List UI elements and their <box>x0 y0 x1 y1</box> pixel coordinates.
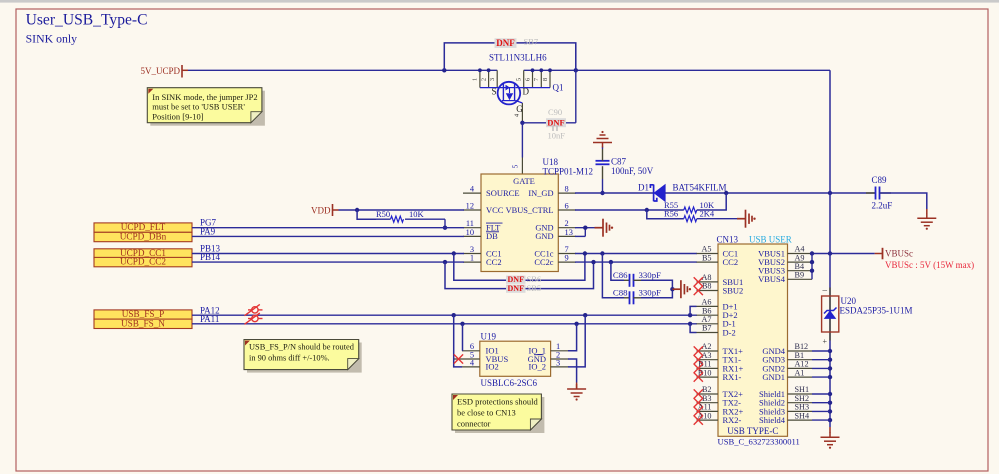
CN13 pin B2 lead <box>697 393 719 395</box>
svg-text:+: + <box>823 337 828 346</box>
junction PA12 / CN13 D+ <box>688 313 692 317</box>
junction C86/C88 ground <box>670 287 674 291</box>
CN13 pin SH3 lead <box>788 410 813 412</box>
Q1 source pin 2 lead <box>488 70 490 87</box>
CN13 pin B4 lead <box>788 270 813 272</box>
wire C87 stem lower <box>602 179 604 193</box>
svg-text:CC2c: CC2c <box>534 258 553 267</box>
wire USB_FS_N PA11 <box>192 323 697 325</box>
svg-text:A1: A1 <box>795 368 805 377</box>
svg-text:must be set to 'USB USER': must be set to 'USB USER' <box>152 102 245 112</box>
svg-text:GND: GND <box>535 232 553 241</box>
svg-text:ESD protections should: ESD protections should <box>457 397 538 407</box>
wire C88 right to join <box>641 289 672 298</box>
CN13 pin A9 lead <box>788 261 813 263</box>
port UCPD_DBn <box>94 232 192 241</box>
junction VBUS vertical / D1 net <box>828 191 832 195</box>
svg-text:C88: C88 <box>613 288 628 298</box>
CN13 pin B12 lead <box>788 350 813 352</box>
junction D1 / R55 <box>724 191 728 195</box>
svg-text:DNF: DNF <box>547 117 564 127</box>
resistor R55 <box>684 207 697 213</box>
svg-text:BAT54KFILM: BAT54KFILM <box>673 182 727 192</box>
junction GND2 on vertical <box>828 366 832 370</box>
junction VBUS_CTRL / R56 branch <box>645 208 649 212</box>
svg-text:PB14: PB14 <box>200 252 221 262</box>
power stub 5V_UCPD <box>183 69 189 71</box>
DNF marker on SB7 <box>495 38 517 48</box>
svg-text:RX1-: RX1- <box>723 372 742 382</box>
no-connect X on CN13 A11 <box>694 407 703 416</box>
U18 pin 10 lead <box>463 235 481 237</box>
svg-text:CC2: CC2 <box>723 257 739 267</box>
C86 right lead (dark) <box>634 279 642 281</box>
junction CC1 / SB6 drop <box>452 251 456 255</box>
junction Q1 pin2 on rail <box>487 68 491 72</box>
wire U19 GND down <box>568 359 577 383</box>
U19 ground stem <box>576 383 578 389</box>
svg-text:B12: B12 <box>795 342 809 351</box>
U18 pin 4 lead <box>463 192 481 194</box>
svg-text:C86: C86 <box>613 270 628 280</box>
junction PA12 / U19 IO_2 <box>583 313 587 317</box>
wire C89 to ground <box>880 193 927 209</box>
junction PA11 / U19 IO_1 <box>574 322 578 326</box>
svg-text:IO_2: IO_2 <box>529 362 546 372</box>
Q1 drain pin 6 lead <box>532 70 534 87</box>
svg-text:3: 3 <box>489 78 496 81</box>
wire C86 right to join <box>641 280 672 289</box>
note sticky ESD protections <box>455 397 544 433</box>
svg-text:GATE: GATE <box>513 176 535 186</box>
svg-text:VBUS4: VBUS4 <box>758 274 786 284</box>
capacitor C88 <box>630 291 634 304</box>
junction CC2 / SB5 drop <box>443 260 447 264</box>
junction CC1c / C88 drop <box>600 251 604 255</box>
CN13 pin B9 lead <box>788 278 813 280</box>
svg-text:1: 1 <box>472 78 479 81</box>
U19 pin 5 lead <box>453 358 480 360</box>
wire SB7 bypass loop <box>444 43 576 70</box>
svg-text:VCC: VCC <box>486 205 504 215</box>
no-connect X on CN13 B10 <box>694 373 703 382</box>
wire PB14 to U18 CC2 <box>192 261 464 263</box>
U20 pin leads (dark) through body <box>829 288 831 341</box>
Q1 drain pin 7 lead <box>540 70 542 87</box>
port UCPD_CC2 <box>94 257 192 266</box>
CN13 pin A8 lead <box>697 281 719 283</box>
junction VBUS1 / vbus join <box>810 251 814 255</box>
junction Q1 pin6 on rail <box>531 68 535 72</box>
port USB_FS_P <box>94 310 192 319</box>
capacitor C90 grey plates <box>553 126 557 132</box>
wire SB6 bypass <box>454 254 585 281</box>
junction VBUS2 <box>810 260 814 264</box>
CN13 pin A5 lead <box>697 253 719 255</box>
Q1 source pin 3 lead <box>496 70 498 87</box>
no-connect X on CN13 A2 <box>694 346 703 355</box>
svg-text:UCPD_CC2: UCPD_CC2 <box>120 257 166 267</box>
wire into R50 <box>376 218 391 220</box>
U18 pin 1 lead <box>463 261 481 263</box>
U18 pin 12 lead <box>463 209 481 211</box>
junction Q1 pin1 on rail <box>478 68 482 72</box>
ground below CN13 VBUS vertical <box>821 432 840 445</box>
svg-text:S: S <box>492 87 497 97</box>
svg-text:B9: B9 <box>795 271 805 280</box>
Q1 drain pin 8 lead <box>549 70 551 87</box>
junction PA11 / CN13 D- <box>688 322 692 326</box>
DNF marker on SB6 <box>506 276 526 284</box>
svg-text:USB_C_632723300011: USB_C_632723300011 <box>718 437 800 447</box>
svg-text:A7: A7 <box>701 315 711 324</box>
svg-text:R56: R56 <box>664 209 678 219</box>
power stub VBUSc <box>875 253 882 255</box>
svg-text:330pF: 330pF <box>639 288 662 298</box>
wire U18 GND pins join <box>584 228 586 237</box>
CN13 pin A4 lead <box>788 253 813 255</box>
svg-text:5: 5 <box>511 164 519 168</box>
wire SB5 bypass <box>445 262 594 289</box>
wire U18 pin13 to join <box>575 235 585 237</box>
ground right of U18 GND <box>595 219 610 237</box>
transil U20 body <box>822 296 839 332</box>
resistor R50 <box>391 216 404 222</box>
CN13 pin A12 lead <box>788 367 813 369</box>
svg-text:U19: U19 <box>481 332 497 342</box>
wire U18 IN_GD to D1 <box>575 192 653 194</box>
wire VDD to U18 VCC <box>339 209 465 211</box>
wire D+1 jog <box>690 306 696 315</box>
wire U18 pin2 to ground <box>575 227 595 229</box>
svg-text:Position [9-10]: Position [9-10] <box>152 112 203 122</box>
junction R50 / FLT net <box>443 226 447 230</box>
power port VBUSc <box>882 248 884 259</box>
differential pair marker on PA12 <box>245 304 263 315</box>
junction 5V rail / SB7-C90 right <box>574 68 578 72</box>
junction VBUS1 / main vertical <box>828 251 832 255</box>
junction VBUS3 <box>810 269 814 273</box>
C88 left lead (dark) <box>624 297 630 299</box>
svg-text:1: 1 <box>470 254 474 263</box>
port UCPD_FLT <box>94 223 192 232</box>
svg-text:ESDA25P35-1U1M: ESDA25P35-1U1M <box>840 306 913 316</box>
svg-text:SB7: SB7 <box>524 37 539 47</box>
junction PA11 / U19 IO1 <box>460 322 464 326</box>
svg-text:100nF, 50V: 100nF, 50V <box>611 166 654 176</box>
no-connect X on CN13 B2 <box>694 389 703 398</box>
wire D-2 jog <box>690 324 696 333</box>
wire B1 to vertical <box>812 359 830 361</box>
CN13 pin A2 lead <box>697 350 719 352</box>
wire R55 up to D1 net <box>697 193 726 210</box>
svg-text:2K4: 2K4 <box>700 209 715 219</box>
svg-text:USBLC6-2SC6: USBLC6-2SC6 <box>481 378 538 388</box>
svg-text:connector: connector <box>457 419 491 429</box>
C89 right lead (dark) <box>880 192 892 194</box>
CN13 pin SH1 lead <box>788 393 813 395</box>
wire PB13 to U18 CC1 <box>192 253 464 255</box>
svg-text:SH1: SH1 <box>795 385 810 394</box>
svg-text:Shield4: Shield4 <box>759 415 786 425</box>
no-connect X on CN13 B3 <box>694 398 703 407</box>
DNF marker on C90 <box>546 118 566 127</box>
capacitor C89 <box>876 187 880 200</box>
IC body U19 <box>480 341 551 376</box>
wire gate net to U18 pin 5 <box>521 123 523 158</box>
svg-text:SH3: SH3 <box>795 403 810 412</box>
svg-text:8: 8 <box>565 185 569 194</box>
junction Shield1 on vertical <box>828 392 832 396</box>
CN13 pin A3 lead <box>697 359 719 361</box>
wire CC1c to CN13 CC1 <box>575 253 697 255</box>
wire CC2c down to C86 <box>611 262 624 280</box>
svg-text:A12: A12 <box>795 360 809 369</box>
C86 left lead (dark) <box>624 279 630 281</box>
svg-text:CN13: CN13 <box>717 235 739 245</box>
svg-text:SH4: SH4 <box>795 411 810 420</box>
junction VDD / R50 branch <box>355 208 359 212</box>
svg-text:B3: B3 <box>702 394 712 403</box>
svg-text:B7: B7 <box>702 324 712 333</box>
CN13 pin SH4 lead <box>788 419 813 421</box>
power stub VDD <box>333 209 339 211</box>
wire R50 branch down <box>357 210 376 219</box>
svg-text:C87: C87 <box>611 157 627 167</box>
svg-text:USB_FS_P/N should be routed: USB_FS_P/N should be routed <box>249 343 355 352</box>
U18 pin 8 lead <box>558 192 576 194</box>
svg-text:5V_UCPD: 5V_UCPD <box>140 66 180 76</box>
CN13 pin B5 lead <box>697 261 719 263</box>
junction GND pins <box>583 226 587 230</box>
U19 GND overline <box>534 354 544 356</box>
wire PA9 to U18 DB <box>192 235 464 237</box>
svg-text:D: D <box>523 87 530 97</box>
Q1 drain pin 5 lead <box>523 70 525 87</box>
wire USB_FS_P PA12 <box>192 314 697 316</box>
note sticky USB_FS routing <box>247 343 362 373</box>
wire PG7 to U18 FLT <box>192 227 464 229</box>
ground right of C86 C88 <box>672 280 687 298</box>
svg-text:USB_FS_N: USB_FS_N <box>121 318 165 328</box>
power port 5V_UCPD <box>181 65 183 78</box>
top window edge strip <box>0 0 999 3</box>
U19 pin 1 lead <box>551 350 569 352</box>
U18 pin 13 lead <box>558 235 576 237</box>
svg-text:GND1: GND1 <box>762 372 785 382</box>
wire U19 IO2 up to PA12 <box>454 315 462 367</box>
ground below U19 <box>567 384 586 397</box>
junction C87 / IN_GD net <box>600 191 604 195</box>
wire C90 branch up to 5V rail <box>575 43 577 123</box>
svg-text:DNF: DNF <box>508 284 525 293</box>
Q1 drain bus bar <box>516 87 550 89</box>
Q1 gate pin lead <box>521 103 523 123</box>
svg-text:User_USB_Type-C: User_USB_Type-C <box>26 12 148 29</box>
junction CC1c / SB6 rise <box>583 251 587 255</box>
C87 lower lead (dark) <box>602 166 604 179</box>
svg-text:RX2-: RX2- <box>723 415 742 425</box>
no-connect X on CN13 A3 <box>694 355 703 364</box>
junction Shield2 on vertical <box>828 401 832 405</box>
junction gate / C90 branch <box>520 121 524 125</box>
junction PA12 / U19 IO2 <box>452 313 456 317</box>
svg-text:B5: B5 <box>702 253 712 262</box>
wire SH1 to vertical <box>812 393 830 395</box>
svg-text:C89: C89 <box>872 175 888 185</box>
DNF marker on SB5 <box>506 285 526 293</box>
svg-text:DNF: DNF <box>508 275 525 284</box>
Q1 source bus bar <box>480 87 502 89</box>
wire C87 stem upper <box>602 147 604 150</box>
C87 upper lead (dark) <box>602 149 604 161</box>
svg-text:R50: R50 <box>376 209 390 219</box>
CN13 pin B8 lead <box>697 290 719 292</box>
wire A1 to vertical <box>812 376 830 378</box>
transil U20 symbol <box>824 308 837 319</box>
wire R50 to FLT net <box>405 218 445 220</box>
CN13 pin A1 lead <box>788 376 813 378</box>
svg-text:VBUS_CTRL: VBUS_CTRL <box>506 206 554 215</box>
junction 5V rail / SB7 left <box>442 68 446 72</box>
Q1 MOSFET symbol <box>498 82 523 105</box>
wire VBUS pins join <box>811 254 813 280</box>
svg-text:2: 2 <box>480 78 487 81</box>
U19 pin 3 lead <box>551 366 569 368</box>
junction Shield3 on vertical <box>828 409 832 413</box>
svg-text:10nF: 10nF <box>548 131 566 141</box>
svg-text:In SINK mode, the jumper JP2: In SINK mode, the jumper JP2 <box>152 92 257 102</box>
U19 pin 6 lead <box>462 350 480 352</box>
svg-text:330pF: 330pF <box>639 270 662 280</box>
no-connect X on CN13 B8 <box>694 286 703 295</box>
junction Q1 pin7 on rail <box>539 68 543 72</box>
U19 pin 4 lead <box>462 366 480 368</box>
IC body U18 <box>481 174 558 272</box>
wire SH3 to vertical <box>812 410 830 412</box>
svg-text:SB5: SB5 <box>527 283 542 293</box>
svg-text:2.2uF: 2.2uF <box>872 201 893 211</box>
wire B12 to vertical <box>812 350 830 352</box>
junction Q1 pin8 on rail <box>548 68 552 72</box>
wire D1 to VBUS rail <box>665 192 875 194</box>
svg-text:SH2: SH2 <box>795 394 810 403</box>
svg-text:C90: C90 <box>548 107 562 117</box>
wire U19 IO_1 up to PA11 <box>568 324 577 351</box>
svg-text:IO2: IO2 <box>486 362 499 372</box>
wire R50 down to FLT <box>444 219 446 228</box>
wire CC2c to CN13 CC2 <box>575 261 697 263</box>
svg-text:TCPP01-M12: TCPP01-M12 <box>543 167 594 177</box>
svg-text:3: 3 <box>556 358 560 367</box>
svg-text:IN_GD: IN_GD <box>528 189 553 198</box>
U18 pin 7 lead <box>558 253 576 255</box>
CN13 pin A7 lead <box>697 323 719 325</box>
svg-text:B8: B8 <box>702 282 712 291</box>
svg-text:Q1: Q1 <box>553 83 564 93</box>
svg-text:10: 10 <box>466 228 474 237</box>
no-connect X on CN13 B11 <box>694 364 703 373</box>
port UCPD_CC1 <box>94 249 192 258</box>
svg-text:UCPD_DBn: UCPD_DBn <box>120 232 167 242</box>
wire SH2 to vertical <box>812 402 830 404</box>
no-connect X on U19 VBUS pin <box>454 354 463 363</box>
svg-text:U20: U20 <box>841 296 857 306</box>
svg-text:SOURCE: SOURCE <box>486 188 520 198</box>
wire R56 branch <box>647 210 684 219</box>
no-connect X on CN13 A10 <box>694 416 703 425</box>
junction CC2c / SB5 rise <box>591 260 595 264</box>
svg-text:6: 6 <box>565 201 569 210</box>
capacitor C87 <box>596 161 610 165</box>
U18 pin 11 lead <box>463 227 481 229</box>
svg-text:DB: DB <box>486 231 498 241</box>
junction CC2c / C86 drop <box>609 260 613 264</box>
no-connect X on CN13 A8 <box>694 277 703 286</box>
U18 pin 9 lead <box>558 261 576 263</box>
svg-text:VDD: VDD <box>311 206 331 216</box>
wire CC1c down to C88 <box>602 254 624 298</box>
Q1 source pin 1 lead <box>479 70 481 87</box>
junction GND4 on vertical <box>828 349 832 353</box>
U18 pin 6 lead <box>558 209 576 211</box>
svg-text:D1: D1 <box>638 182 649 192</box>
svg-text:SINK only: SINK only <box>26 32 78 46</box>
differential pair marker on PA11 <box>245 313 263 324</box>
svg-text:8: 8 <box>542 78 549 81</box>
diode D1 BAT54KFILM <box>650 185 665 202</box>
wire VBUS1 to VBUSc <box>812 253 875 255</box>
svg-text:10K: 10K <box>409 209 425 219</box>
resistor R56 <box>684 216 697 222</box>
svg-text:U18: U18 <box>543 157 559 167</box>
svg-text:–: – <box>822 285 828 295</box>
U18 pin 2 lead <box>558 227 576 229</box>
port USB_FS_N <box>94 319 192 328</box>
svg-text:in 90 ohms diff +/-10%.: in 90 ohms diff +/-10%. <box>249 354 330 363</box>
wire 5V_UCPD rail left of Q1 <box>188 69 497 71</box>
CN13 ground stem (red) <box>829 427 831 433</box>
CN13 pin B1 lead <box>788 359 813 361</box>
svg-text:12: 12 <box>466 201 474 210</box>
svg-text:GND: GND <box>535 224 553 233</box>
CN13 pin B10 lead <box>697 376 719 378</box>
IC body CN13 <box>718 244 788 436</box>
svg-text:USB USER: USB USER <box>749 235 792 245</box>
CN13 pin B3 lead <box>697 402 719 404</box>
CN13 pin A11 lead <box>697 410 719 412</box>
U18 DB overline <box>486 231 499 233</box>
wire U19 IO1 up to PA11 <box>462 324 464 351</box>
wire VBUS_CTRL to R55 <box>575 209 684 211</box>
CN13 pin A10 lead <box>697 419 719 421</box>
CN13 pin SH2 lead <box>788 402 813 404</box>
svg-text:13: 13 <box>565 228 573 237</box>
ground above C87 <box>593 135 612 148</box>
C89 ground stem (red) <box>926 209 928 214</box>
note sticky JP2 jumper <box>150 91 265 126</box>
svg-text:A6: A6 <box>701 298 711 307</box>
junction GND1 on vertical <box>828 375 832 379</box>
svg-text:USB TYPE-C: USB TYPE-C <box>727 426 778 436</box>
svg-text:be close to CN13: be close to CN13 <box>457 408 516 418</box>
svg-text:5: 5 <box>516 78 523 81</box>
power port VDD <box>332 204 334 216</box>
svg-text:STL11N3LLH6: STL11N3LLH6 <box>489 53 547 63</box>
svg-text:9: 9 <box>565 254 569 263</box>
svg-text:2: 2 <box>565 219 569 228</box>
svg-text:VBUSc : 5V (15W max): VBUSc : 5V (15W max) <box>885 260 974 270</box>
